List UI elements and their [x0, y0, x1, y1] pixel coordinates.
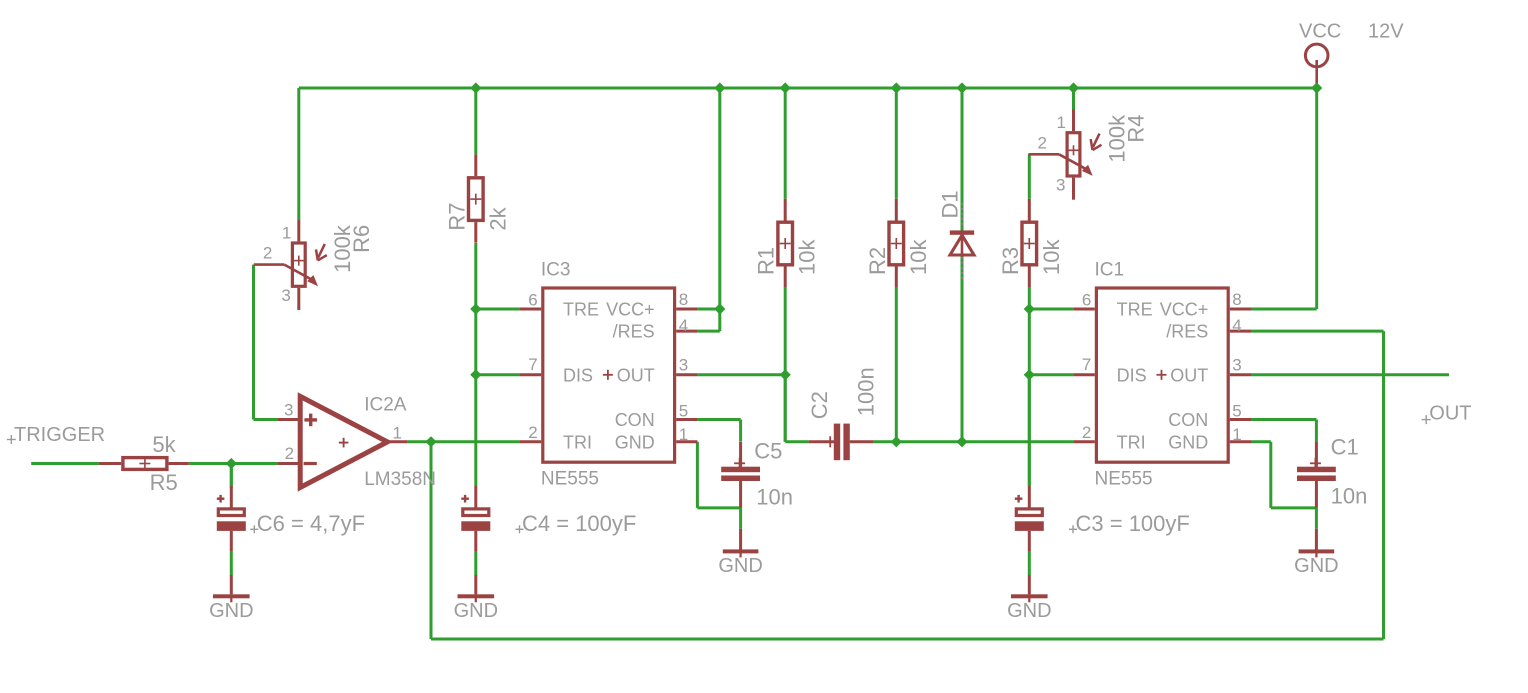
svg-text:GND: GND	[615, 432, 655, 452]
svg-text:10k: 10k	[1039, 239, 1064, 275]
svg-text:TRIGGER: TRIGGER	[14, 424, 105, 446]
svg-text:GND: GND	[1007, 600, 1051, 622]
svg-text:DIS: DIS	[563, 365, 593, 385]
svg-text:10k: 10k	[795, 239, 820, 275]
svg-text:GND: GND	[1294, 555, 1338, 577]
svg-text:IC2A: IC2A	[364, 394, 407, 415]
svg-text:1: 1	[679, 425, 688, 444]
svg-text:12V: 12V	[1368, 21, 1404, 43]
svg-text:1: 1	[1057, 113, 1066, 132]
svg-text:C1: C1	[1331, 435, 1359, 460]
svg-text:NE555: NE555	[1095, 469, 1153, 490]
svg-text:GND: GND	[718, 555, 762, 577]
svg-text:7: 7	[528, 355, 537, 374]
svg-text:TRE: TRE	[563, 300, 599, 320]
svg-text:R2: R2	[865, 247, 890, 275]
svg-text:5k: 5k	[152, 432, 176, 457]
svg-text:1: 1	[393, 424, 402, 443]
svg-text:D1: D1	[938, 190, 963, 218]
svg-text:8: 8	[1232, 290, 1241, 309]
svg-text:DIS: DIS	[1117, 365, 1147, 385]
svg-text:3: 3	[1232, 355, 1241, 374]
svg-text:GND: GND	[454, 600, 498, 622]
svg-text:OUT: OUT	[1170, 365, 1208, 385]
svg-text:1: 1	[1232, 425, 1241, 444]
svg-text:TRI: TRI	[1117, 432, 1146, 452]
svg-text:10n: 10n	[756, 485, 793, 510]
svg-text:VCC: VCC	[1299, 21, 1341, 43]
svg-text:8: 8	[679, 290, 688, 309]
svg-text:IC3: IC3	[541, 260, 571, 281]
svg-text:3: 3	[281, 286, 290, 305]
svg-text:R4: R4	[1124, 114, 1149, 142]
svg-text:3: 3	[1056, 176, 1065, 195]
svg-text:7: 7	[1082, 355, 1091, 374]
svg-text:C3 = 100yF: C3 = 100yF	[1076, 511, 1190, 536]
svg-text:R7: R7	[444, 202, 469, 230]
svg-text:OUT: OUT	[1429, 403, 1471, 425]
svg-text:R3: R3	[998, 247, 1023, 275]
svg-text:C2: C2	[807, 391, 832, 419]
svg-text:3: 3	[284, 400, 293, 419]
svg-text:LM358N: LM358N	[364, 469, 436, 490]
svg-text:GND: GND	[1168, 432, 1208, 452]
svg-text:TRI: TRI	[563, 432, 592, 452]
svg-text:CON: CON	[615, 410, 655, 430]
svg-text:C4 = 100yF: C4 = 100yF	[522, 511, 636, 536]
svg-text:6: 6	[1082, 291, 1091, 310]
svg-text:10k: 10k	[906, 239, 931, 275]
svg-text:VCC+: VCC+	[606, 300, 655, 320]
svg-text:CON: CON	[1168, 410, 1208, 430]
svg-text:5: 5	[679, 402, 688, 421]
svg-text:1: 1	[282, 223, 291, 242]
svg-text:4: 4	[679, 316, 688, 335]
svg-text:IC1: IC1	[1095, 260, 1125, 281]
svg-text:2: 2	[1038, 133, 1047, 152]
svg-text:R5: R5	[150, 470, 178, 495]
svg-text:OUT: OUT	[617, 365, 655, 385]
svg-text:6: 6	[528, 291, 537, 310]
svg-text:4: 4	[1232, 316, 1241, 335]
svg-text:R6: R6	[349, 225, 374, 253]
svg-text:C5: C5	[754, 439, 782, 464]
svg-text:2: 2	[285, 444, 294, 463]
svg-text:/RES: /RES	[613, 322, 655, 342]
svg-text:3: 3	[679, 355, 688, 374]
svg-text:2: 2	[263, 244, 272, 263]
svg-text:10n: 10n	[1331, 484, 1368, 509]
svg-text:R1: R1	[754, 247, 779, 275]
svg-text:100n: 100n	[853, 367, 878, 416]
svg-text:NE555: NE555	[541, 469, 599, 490]
svg-text:2k: 2k	[485, 206, 510, 230]
svg-text:2: 2	[1082, 423, 1091, 442]
svg-text:GND: GND	[209, 600, 253, 622]
svg-text:C6 = 4,7yF: C6 = 4,7yF	[257, 511, 365, 536]
svg-text:VCC+: VCC+	[1160, 300, 1209, 320]
svg-text:5: 5	[1232, 402, 1241, 421]
svg-text:/RES: /RES	[1166, 322, 1208, 342]
svg-text:TRE: TRE	[1117, 300, 1153, 320]
svg-text:2: 2	[528, 423, 537, 442]
